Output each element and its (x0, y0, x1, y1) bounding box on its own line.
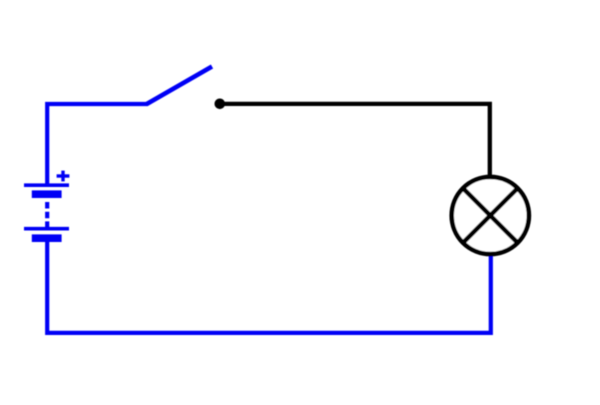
battery cell 2 short thick plate (-) (32, 234, 62, 242)
battery B1 (24, 185, 69, 238)
wire from lamp bottom around to battery negative (blue) (47, 241, 491, 333)
switch S1 (open blade) (146, 67, 212, 105)
battery cell 1 short thick plate (-) (32, 190, 62, 198)
dashed link between cells (45, 202, 49, 228)
battery cell 2 long plate (+) (24, 227, 69, 231)
wire from switch contact to lamp (top, black) (221, 104, 490, 177)
lamp L1 (circle with X) (452, 177, 529, 254)
wire from battery positive up and across to switch (47, 104, 147, 186)
node junction dot (switch contact) (215, 99, 226, 110)
plus sign label of battery (57, 171, 70, 182)
battery cell 1 long plate (+) (24, 183, 69, 187)
